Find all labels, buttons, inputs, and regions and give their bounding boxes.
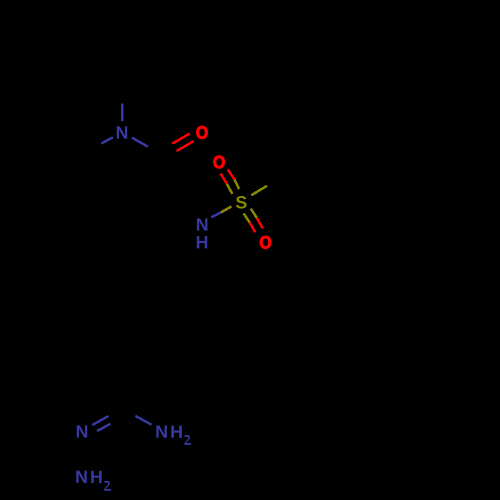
atom label N4 H xyxy=(171,426,181,438)
atom label N3 (amidine =N) xyxy=(77,425,87,437)
atom label O2 (sulfonyl O upper) xyxy=(214,156,225,169)
wire C=O1 double bond lower line xyxy=(177,141,194,151)
atom label H on N2 xyxy=(197,236,207,248)
wire N2-S bond olive half xyxy=(221,206,232,212)
wire S=O3 left line olive half xyxy=(244,213,250,222)
wire O2=S left line red half xyxy=(221,173,227,184)
atom label N5 (amino NH2) N xyxy=(76,471,86,483)
atom label N4 (amidine NH2) N xyxy=(156,425,166,437)
wire N1-CH3 bond half (blue vertical) xyxy=(121,104,123,122)
atom label N5 subscript 2 xyxy=(104,481,111,491)
wire N3=C double bond lower line xyxy=(97,424,111,431)
wire N1-ring C bond half (down-left) xyxy=(101,137,113,143)
atom label S1 (sulfonyl S) xyxy=(236,196,247,209)
wire C-NH2 bond half (blue) xyxy=(135,416,151,425)
wire C=O1 double bond upper line xyxy=(172,133,190,143)
wire O2=S left line olive half xyxy=(227,184,232,194)
wire O2=S right line olive half xyxy=(235,180,239,189)
wire N2-S bond blue half xyxy=(211,212,221,217)
atom label O1 (amide carbonyl O) xyxy=(196,126,207,139)
wire O2=S right line red half xyxy=(228,169,235,179)
atom label N2 (sulfonamide N) xyxy=(197,218,207,230)
atom label N5 H xyxy=(91,471,101,483)
atom label N1 (lactam ring N) xyxy=(117,126,127,138)
wire S=O3 right line red half xyxy=(257,218,263,229)
wire N1-carbonyl C bond half (down-right) xyxy=(132,138,148,147)
wire N3=C double bond upper line xyxy=(92,416,108,425)
atom label N4 subscript 2 xyxy=(184,435,191,445)
wire S=O3 left line red half xyxy=(250,222,256,232)
atom label O3 (sulfonyl O lower) xyxy=(260,236,271,249)
wire S=O3 right line olive half xyxy=(251,209,257,218)
wire S-CH3 bond half (olive) xyxy=(251,186,267,196)
